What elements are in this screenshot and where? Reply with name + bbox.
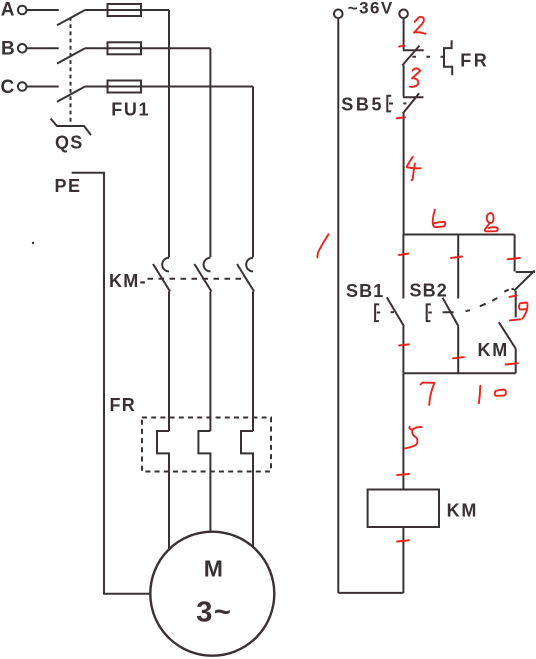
svg-text:SB5: SB5: [341, 94, 384, 114]
svg-text:PE: PE: [55, 176, 82, 196]
svg-text:M: M: [204, 556, 223, 582]
svg-text:SB2: SB2: [410, 281, 448, 301]
svg-text:FR: FR: [460, 50, 489, 70]
svg-text:FR: FR: [110, 395, 136, 415]
svg-text:3~: 3~: [196, 597, 232, 629]
svg-text:FU1: FU1: [111, 99, 150, 119]
svg-text:KM: KM: [447, 501, 479, 521]
svg-text:~36V: ~36V: [348, 0, 394, 17]
svg-text:C: C: [1, 77, 15, 98]
svg-text:SB1: SB1: [346, 281, 384, 301]
svg-text:KM-: KM-: [109, 271, 147, 291]
svg-text:QS: QS: [55, 132, 83, 152]
svg-text:A: A: [1, 0, 15, 21]
svg-text:KM: KM: [478, 340, 510, 360]
svg-text:B: B: [1, 38, 15, 59]
